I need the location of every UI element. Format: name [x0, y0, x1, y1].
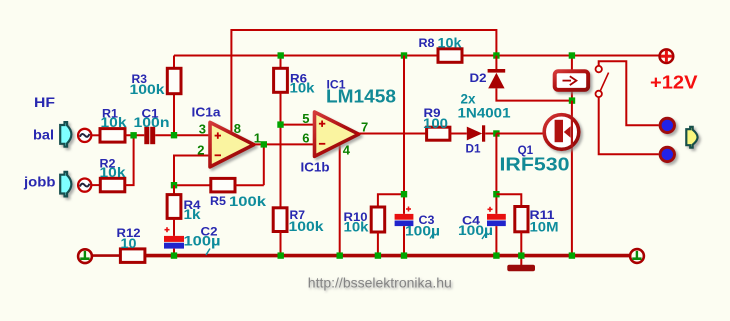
connector output arrow — [686, 127, 697, 148]
node junction J10 — [569, 97, 575, 103]
svg-text:10M: 10M — [530, 218, 559, 234]
wire: IC1a output to IC1b pin6 — [252, 143, 316, 145]
svg-text:jobb: jobb — [23, 174, 56, 190]
capacitor C3 — [395, 207, 440, 256]
node junction J1 — [130, 132, 136, 138]
wire R6 to R7 — [280, 92, 282, 208]
svg-text:LM1458: LM1458 — [326, 86, 396, 106]
node junction J20 — [518, 252, 524, 258]
wire — [450, 133, 467, 135]
op-amp IC1b plus sign — [319, 121, 325, 127]
connector jobb input — [60, 172, 71, 197]
wire: IC1b pin5 — [281, 124, 316, 126]
svg-text:100n: 100n — [134, 114, 170, 130]
node junction J7 — [401, 52, 407, 58]
terminal output 2 — [660, 147, 674, 161]
wire: Q1 drain-source vertical — [571, 101, 573, 256]
resistor R2 — [100, 158, 126, 192]
svg-text:2: 2 — [197, 142, 204, 157]
resistor R9 — [423, 108, 450, 140]
diode D2 — [458, 56, 511, 121]
svg-text:HF: HF — [34, 94, 55, 110]
svg-text:1k: 1k — [184, 206, 201, 222]
svg-text:IC1a: IC1a — [192, 105, 222, 119]
wire — [92, 184, 101, 186]
node junction J21 — [569, 252, 575, 258]
diode D1 — [466, 125, 486, 155]
svg-text:100k: 100k — [289, 218, 324, 234]
svg-text:4: 4 — [343, 143, 351, 158]
ground symbol left — [78, 249, 92, 263]
terminal output 1 — [660, 118, 674, 132]
svg-text:10k: 10k — [100, 164, 126, 180]
svg-text:100k: 100k — [229, 193, 266, 209]
node junction J2 — [171, 132, 177, 138]
svg-text:1: 1 — [254, 131, 261, 146]
svg-text:+12V: +12V — [650, 73, 698, 93]
svg-text:10k: 10k — [438, 34, 462, 50]
capacitor C1 — [134, 109, 170, 145]
svg-text:3: 3 — [199, 122, 206, 137]
svg-text:D2: D2 — [470, 73, 487, 85]
svg-text:100: 100 — [423, 115, 448, 131]
source symbol jobb — [78, 179, 91, 192]
wire: ground rail — [92, 254, 630, 257]
node junction J6 — [278, 52, 284, 58]
ground bar below R11 — [507, 265, 535, 272]
svg-text:10: 10 — [121, 235, 137, 251]
svg-text:bal: bal — [33, 127, 54, 143]
op-amp IC1a minus sign — [215, 154, 221, 156]
ground symbol right — [630, 249, 644, 263]
svg-text:10k: 10k — [344, 219, 369, 235]
resistor R11 — [496, 194, 558, 265]
svg-text:1N4001: 1N4001 — [458, 104, 511, 120]
wire: lamp risers — [571, 56, 573, 101]
node junction J3 — [261, 141, 267, 147]
wire: C4 branch vertical — [495, 134, 497, 214]
transistor Q1 — [500, 115, 579, 175]
connector bal input — [60, 122, 71, 147]
node junction J5 — [171, 182, 177, 188]
node junction J17 — [375, 252, 381, 258]
svg-text:10k: 10k — [101, 114, 127, 130]
svg-text:10k: 10k — [290, 80, 315, 96]
node junction J13 — [493, 191, 499, 197]
node junction J11 — [493, 130, 499, 136]
node junction J19 — [493, 252, 499, 258]
wire: switch top to output 1 — [599, 61, 659, 125]
wire: vertical x404 — [403, 56, 405, 214]
svg-text:http://bsselektronika.hu: http://bsselektronika.hu — [308, 274, 452, 290]
wire: gate of Q1 — [496, 133, 546, 135]
svg-text:100k: 100k — [130, 81, 165, 97]
resistor R6 — [274, 56, 315, 96]
+12V terminal — [660, 49, 674, 63]
svg-text:D1: D1 — [466, 143, 482, 155]
wire: IC1a pin2 — [174, 156, 211, 186]
wire: feedback drop to R5 — [263, 144, 265, 185]
resistor R10 — [344, 194, 405, 255]
op-amp IC1a — [210, 122, 254, 166]
svg-text:8: 8 — [234, 121, 241, 136]
wire: D2 anode to drain node — [496, 88, 572, 100]
resistor R5 — [210, 178, 266, 208]
wire: switch bottom to output 2 — [599, 97, 659, 154]
source symbol bal — [78, 129, 91, 142]
op-amp IC1b — [315, 112, 359, 156]
wire: IC1b pin4 to ground — [339, 144, 341, 256]
svg-text:100µ: 100µ — [184, 233, 221, 249]
breaker/lamp element — [555, 71, 589, 90]
svg-text:IC1b: IC1b — [301, 161, 330, 175]
resistor R1 — [100, 108, 127, 142]
wire — [174, 184, 211, 186]
resistor R12 — [117, 228, 145, 262]
wire — [125, 135, 134, 185]
wire: V+ rail to op-amp pin 8 — [231, 30, 496, 134]
node junction J18 — [401, 252, 407, 258]
resistor R7 — [273, 208, 324, 234]
resistor R8 — [419, 34, 463, 62]
svg-text:R8: R8 — [419, 38, 436, 50]
svg-text:6: 6 — [302, 131, 309, 146]
wire — [485, 133, 496, 135]
wire — [155, 134, 211, 136]
wire — [280, 232, 282, 256]
capacitor C4 — [458, 207, 506, 256]
node junction J16 — [337, 252, 343, 258]
op-amp IC1b minus sign — [319, 143, 325, 145]
wire: IC1b output row — [356, 133, 427, 135]
node junction J14 — [171, 252, 177, 258]
node junction J15 — [278, 252, 284, 258]
url watermark — [308, 274, 453, 292]
resistor R4 — [167, 185, 201, 222]
svg-text:100µ: 100µ — [458, 222, 493, 238]
node junction J12 — [401, 191, 407, 197]
svg-text:5: 5 — [302, 111, 309, 126]
wire: +12V rail (top) — [174, 55, 659, 57]
wire — [125, 134, 144, 136]
svg-text:100µ: 100µ — [405, 222, 440, 238]
resistor R3 — [130, 56, 182, 136]
wire — [92, 134, 100, 136]
svg-text:R5: R5 — [210, 196, 227, 208]
node junction J9 — [569, 52, 575, 58]
wire — [235, 184, 264, 186]
op-amp IC1a plus sign — [215, 132, 221, 138]
svg-text:7: 7 — [361, 120, 368, 135]
svg-text:IRF530: IRF530 — [500, 154, 570, 174]
node junction J8 — [493, 52, 499, 58]
node junction J4 — [277, 121, 283, 127]
capacitor C2 — [164, 218, 221, 255]
switch S1 — [596, 66, 609, 97]
